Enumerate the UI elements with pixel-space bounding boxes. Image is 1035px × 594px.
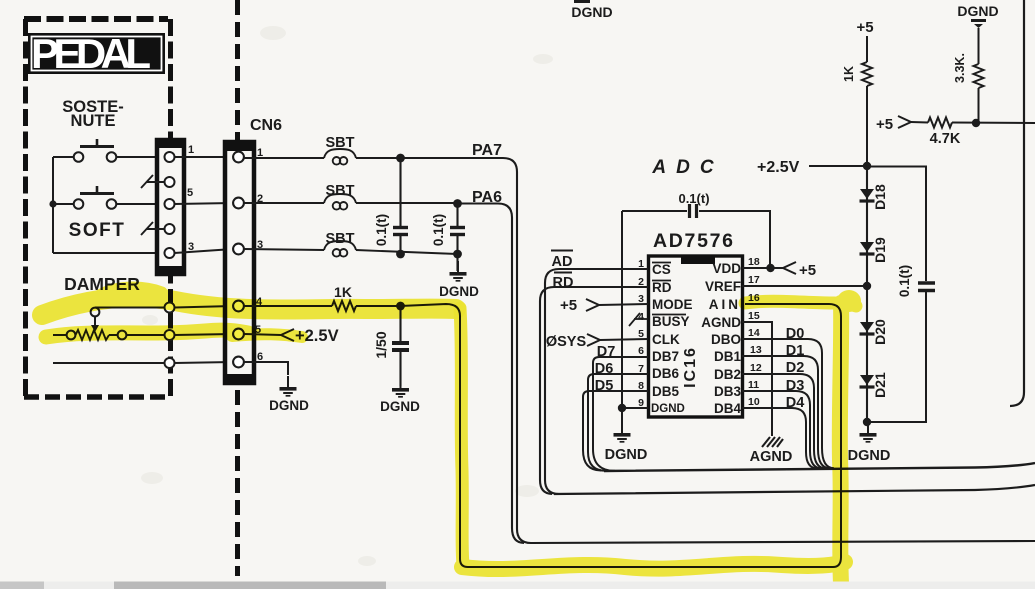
- wire CN6 pin6 to ground: [244, 362, 288, 375]
- signal D1: [742, 343, 830, 468]
- svg-text:13: 13: [750, 344, 762, 356]
- svg-text:+2.5V: +2.5V: [757, 159, 800, 176]
- wire 4.7K to right edge: [952, 122, 1035, 125]
- node DGND pin9: [605, 404, 648, 463]
- svg-text:DB5: DB5: [652, 384, 679, 399]
- diode D19: [860, 237, 889, 263]
- capacitor C3 1/50: [392, 306, 409, 386]
- capacitor C1 0.1(t): [393, 158, 408, 254]
- svg-text:+5: +5: [799, 262, 816, 279]
- IC left pin labels: [651, 262, 693, 415]
- svg-text:0.1(t): 0.1(t): [897, 265, 912, 297]
- node +2.5V junction: [863, 162, 871, 170]
- diode chain wire: [866, 166, 868, 423]
- svg-text:DGND: DGND: [651, 403, 685, 415]
- node PA6 junction: [453, 199, 462, 208]
- svg-text:6: 6: [638, 345, 644, 357]
- svg-text:DB7: DB7: [652, 349, 679, 364]
- label SOSTE-NUTE: [62, 98, 123, 130]
- svg-text:AIN: AIN: [709, 297, 741, 312]
- wire AIN highlighted run: [400, 304, 841, 567]
- ground DGND diodes: [848, 422, 891, 464]
- ferrite bead L1: [244, 149, 400, 165]
- connector P1 body: [155, 138, 186, 276]
- svg-text:12: 12: [750, 362, 762, 374]
- busy nc stub: [629, 313, 648, 326]
- svg-text:CLK: CLK: [652, 332, 680, 347]
- svg-text:+5: +5: [560, 297, 577, 314]
- signal D0: [742, 326, 834, 468]
- svg-text:DGND: DGND: [439, 284, 479, 299]
- svg-text:DB6: DB6: [652, 366, 679, 381]
- svg-text:RD: RD: [652, 280, 672, 295]
- svg-text:11: 11: [748, 379, 759, 391]
- wire PA6: [457, 204, 524, 543]
- ground DGND 1/50: [380, 377, 420, 414]
- PEDAL label: [28, 30, 165, 77]
- svg-text:PEDAL: PEDAL: [31, 30, 151, 77]
- AGND drop: [742, 322, 792, 465]
- scrollbar strip: [0, 582, 1035, 590]
- connector P1 pins: [165, 152, 175, 258]
- pedal block dashed border: [24, 19, 171, 398]
- signal OSYS CLK: [546, 334, 648, 350]
- svg-text:1/50: 1/50: [373, 331, 389, 358]
- svg-text:DGND: DGND: [571, 4, 612, 20]
- svg-text:5: 5: [187, 187, 193, 199]
- svg-text:0.1(t): 0.1(t): [678, 191, 709, 206]
- wires P1 to CN6: [175, 157, 234, 253]
- svg-text:MODE: MODE: [652, 297, 693, 312]
- svg-text:D20: D20: [872, 319, 888, 345]
- wire +2.5V rail: [809, 165, 867, 167]
- svg-text:17: 17: [748, 274, 760, 286]
- svg-text:SOFT: SOFT: [69, 220, 126, 241]
- svg-text:DB1: DB1: [714, 349, 741, 364]
- section divider dashed line bottom: [235, 390, 240, 576]
- wire: row 3 plain: [53, 252, 164, 254]
- svg-text:1K: 1K: [842, 66, 856, 82]
- signal AD wire: [545, 251, 648, 495]
- svg-text:IC16: IC16: [682, 346, 699, 388]
- svg-text:D19: D19: [872, 237, 888, 263]
- svg-text:15: 15: [748, 310, 760, 322]
- ferrite bead L2: [244, 194, 457, 210]
- svg-text:14: 14: [748, 327, 760, 339]
- svg-text:DGND: DGND: [848, 448, 891, 464]
- switch SOSTENUTE: [53, 139, 164, 162]
- wire PA7: [400, 158, 1035, 543]
- capacitor C4 0.1(t) decoupling: [622, 204, 770, 408]
- svg-text:PA7: PA7: [472, 142, 502, 159]
- svg-text:3.3K.: 3.3K.: [953, 53, 967, 83]
- resistor R 1K row4: [244, 301, 400, 311]
- svg-text:AGND: AGND: [701, 315, 741, 330]
- node VREF junction: [863, 282, 871, 290]
- svg-text:DB3: DB3: [714, 384, 741, 399]
- svg-text:ADC: ADC: [651, 157, 723, 178]
- signal +5 4.7K: [876, 116, 928, 133]
- svg-text:SBT: SBT: [326, 183, 355, 199]
- svg-text:4.7K: 4.7K: [930, 131, 961, 147]
- signal VREF wire: [742, 285, 868, 287]
- svg-text:RD: RD: [553, 275, 574, 291]
- svg-text:DB2: DB2: [714, 367, 741, 382]
- +2.5V arrow at CN6 pin5: [244, 327, 339, 345]
- svg-text:PA6: PA6: [472, 189, 502, 206]
- svg-text:NUTE: NUTE: [71, 112, 116, 130]
- wire: left common vertical: [52, 157, 54, 253]
- svg-text:CN6: CN6: [250, 117, 282, 134]
- ground top right: [971, 19, 986, 28]
- signal RD wire: [540, 273, 648, 494]
- IC notch: [681, 257, 715, 264]
- switch SOFT: [53, 186, 164, 209]
- resistor R 4.7K: [928, 118, 952, 128]
- node PA7 junction: [396, 154, 405, 163]
- svg-text:0.1(t): 0.1(t): [431, 214, 446, 246]
- diode D20: [860, 319, 889, 345]
- svg-text:18: 18: [748, 256, 760, 268]
- diode D21: [860, 372, 889, 398]
- node cap row junctions: [396, 250, 405, 259]
- overlines CS RD BUSY: [652, 263, 686, 315]
- svg-text:1: 1: [188, 144, 194, 156]
- ground DGND pin6: [269, 376, 309, 413]
- wire bus AD/RD loop: [554, 485, 1035, 494]
- svg-text:DGND: DGND: [605, 447, 648, 463]
- svg-text:DGND: DGND: [957, 3, 998, 19]
- IC right pin labels: [701, 261, 741, 416]
- border feedthrough pins: [165, 303, 175, 369]
- capacitor C2 0.1(t): [450, 204, 465, 255]
- IC U16 body: [649, 256, 743, 417]
- section divider dashed line top: [235, 0, 240, 140]
- ferrite bead L3: [244, 241, 457, 257]
- svg-text:ØSYS: ØSYS: [546, 334, 587, 350]
- svg-text:+5: +5: [876, 116, 893, 133]
- signal D7: [593, 344, 648, 471]
- signal D3: [742, 378, 822, 469]
- resistor R 3.3K vertical: [974, 28, 984, 123]
- IC pin numbers left: [638, 258, 644, 409]
- svg-text:BUSY: BUSY: [652, 314, 690, 329]
- signal D2: [742, 360, 826, 468]
- connector CN6 body: [223, 140, 256, 385]
- svg-text:SBT: SBT: [326, 231, 355, 247]
- svg-text:VDD: VDD: [712, 261, 741, 276]
- pin numbers P1: [187, 144, 194, 253]
- node 3.3K junction: [972, 119, 980, 127]
- signal +5 MODE: [560, 297, 648, 314]
- junction dot: [49, 200, 56, 207]
- nc stub row2: [141, 175, 164, 188]
- wire right edge vertical: [1010, 0, 1024, 406]
- CN6 pins: [233, 152, 244, 368]
- node 1/50 junction: [396, 302, 405, 311]
- svg-text:DBO: DBO: [711, 332, 741, 347]
- svg-text:DB4: DB4: [714, 401, 741, 416]
- signal D5: [583, 378, 648, 471]
- highlighter mark: damper wire band: [42, 287, 456, 337]
- signal D4: [742, 395, 818, 469]
- CN6 pin numbers: [255, 147, 263, 363]
- label DGND top middle: [571, 0, 612, 20]
- nc stub row4: [141, 222, 164, 235]
- svg-text:AGND: AGND: [750, 449, 793, 465]
- wires to CN6 pins 4,5,6: [175, 306, 234, 363]
- node diode bottom junction: [863, 418, 871, 426]
- svg-text:AD: AD: [552, 254, 573, 270]
- svg-text:D18: D18: [872, 184, 888, 210]
- wire row6: [53, 362, 164, 364]
- diode D18: [860, 184, 889, 210]
- svg-text:CS: CS: [652, 262, 671, 277]
- IC pin numbers right: [748, 256, 762, 408]
- capacitor C5 0.1(t) branch: [867, 167, 935, 423]
- wire bus D7-D5 loop: [604, 463, 1035, 471]
- highlighter mark: AIN loop (left vertical, bottom, right vertical, AIN row): [460, 290, 861, 583]
- svg-text:DGND: DGND: [269, 398, 309, 413]
- svg-text:10: 10: [748, 396, 760, 408]
- svg-text:D21: D21: [872, 372, 888, 398]
- svg-text:1K: 1K: [334, 284, 352, 300]
- svg-text:VREF: VREF: [705, 279, 741, 294]
- svg-text:DGND: DGND: [380, 399, 420, 414]
- svg-text:+5: +5: [856, 19, 873, 36]
- signal D6: [588, 361, 648, 471]
- ground DGND caps: [439, 254, 479, 299]
- svg-text:0.1(t): 0.1(t): [374, 214, 389, 246]
- resistor R 1K vertical: [862, 36, 872, 166]
- damper potentiometer: [53, 308, 164, 341]
- signal VDD +5: [742, 262, 816, 279]
